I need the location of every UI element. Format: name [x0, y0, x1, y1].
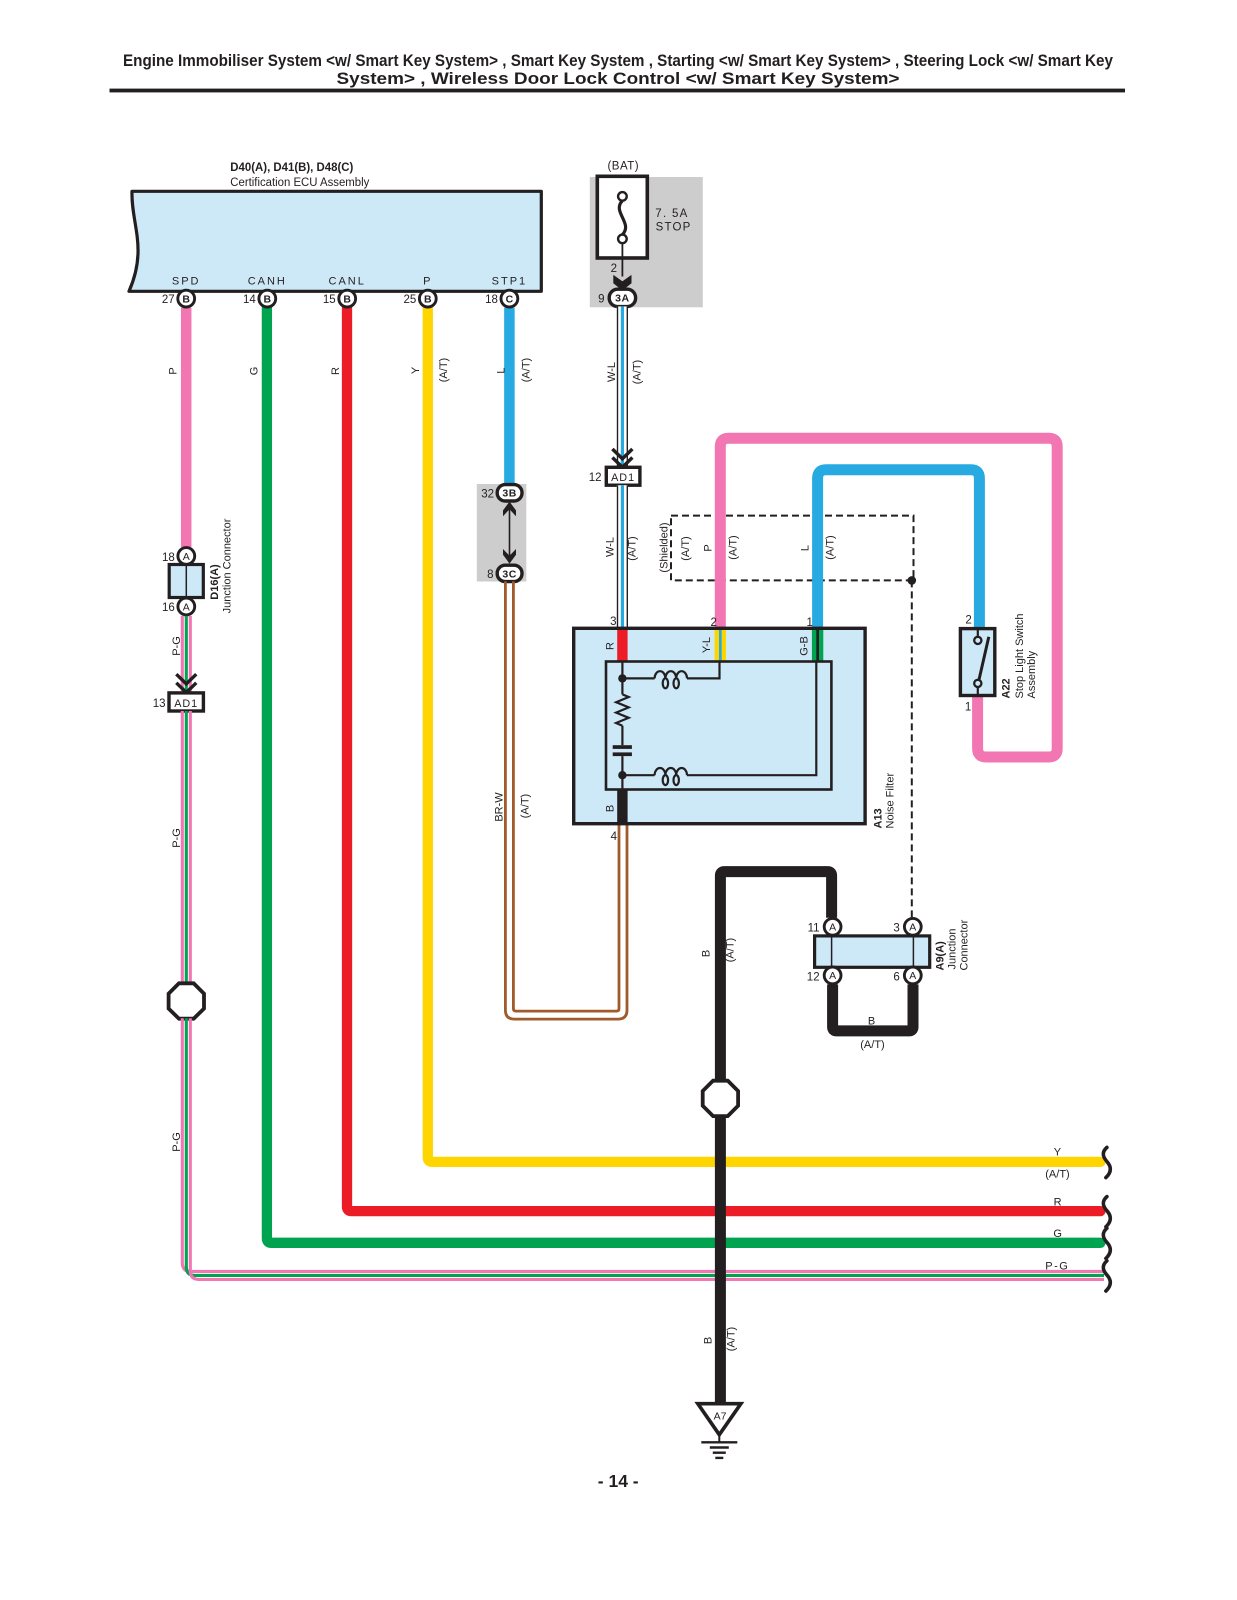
- svg-text:3C: 3C: [502, 568, 516, 580]
- svg-text:18: 18: [485, 294, 498, 306]
- connector 32 3B: [481, 485, 522, 501]
- noise filter pin 2 Y-L stub: [701, 617, 726, 662]
- svg-text:A: A: [183, 601, 190, 613]
- wire W-L (AD1 12 to noise filter pin 3): [617, 485, 628, 630]
- wire L (STP1 18 to connector 3B): [504, 308, 515, 486]
- svg-text:A: A: [909, 922, 916, 934]
- svg-text:Certification ECU Assembly: Certification ECU Assembly: [230, 177, 369, 189]
- svg-text:G: G: [249, 367, 261, 376]
- wire BR-W (3C down, right, up to noise filter pin 4): [505, 581, 627, 1019]
- svg-text:CANH: CANH: [248, 276, 287, 288]
- svg-text:System> , Wireless Door Lock C: System> , Wireless Door Lock Control <w/…: [337, 69, 900, 88]
- svg-text:A: A: [829, 970, 836, 982]
- svg-text:R: R: [1054, 1197, 1062, 1209]
- wire label P (A/T) in shield: [703, 535, 740, 559]
- label (Shielded) (A/T): [659, 522, 693, 572]
- svg-text:7. 5A: 7. 5A: [655, 208, 688, 220]
- brace G: [1103, 1228, 1110, 1258]
- svg-text:Y: Y: [1054, 1146, 1062, 1158]
- svg-text:L: L: [800, 545, 812, 551]
- wire B loop (A9 pin 12 to pin 6): [833, 984, 913, 1031]
- pin 15 B CANL: [323, 276, 366, 307]
- svg-text:15: 15: [323, 294, 336, 306]
- splice arrow into AD1 13: [176, 674, 196, 692]
- svg-text:3: 3: [893, 923, 899, 935]
- svg-text:D40(A), D41(B), D48(C): D40(A), D41(B), D48(C): [230, 162, 353, 174]
- node junction top: [618, 674, 626, 682]
- svg-text:9: 9: [598, 293, 604, 305]
- svg-text:1: 1: [806, 617, 812, 629]
- wire P-G (D16 pin16 to AD1 13): [182, 616, 190, 693]
- svg-text:B: B: [264, 293, 272, 305]
- svg-text:- 14 -: - 14 -: [598, 1471, 639, 1491]
- ground A7: [698, 1404, 741, 1443]
- svg-text:B: B: [424, 293, 432, 305]
- wire L stop light (noise filter pin 1 up, right, down to switch pin 2): [818, 470, 980, 630]
- connector AD1 12: [589, 467, 640, 485]
- svg-text:(A/T): (A/T): [680, 536, 692, 560]
- svg-text:3: 3: [610, 616, 616, 628]
- svg-text:A13: A13: [873, 808, 885, 828]
- svg-text:SPD: SPD: [172, 276, 201, 288]
- shield dashed box: [671, 516, 914, 581]
- svg-text:G: G: [1053, 1228, 1062, 1240]
- brace Y: [1103, 1147, 1110, 1177]
- svg-text:B: B: [703, 1337, 715, 1344]
- wire label W-L (A/T) lower: [605, 536, 639, 560]
- wire label Y (A/T): [410, 358, 450, 382]
- svg-text:W-L: W-L: [605, 537, 617, 557]
- wire inductor 1 to pin 2: [687, 662, 720, 679]
- wire label L (A/T) in shield: [800, 535, 837, 559]
- svg-text:B: B: [343, 293, 351, 305]
- svg-text:L: L: [496, 367, 508, 373]
- wire Y (P 25 down and right to edge): [428, 308, 1101, 1162]
- svg-text:A: A: [909, 970, 916, 982]
- wire P-G (octagon down, right to edge): [182, 1018, 1104, 1279]
- svg-text:14: 14: [243, 294, 256, 306]
- wire capacitor to bottom node and pin 4: [621, 756, 623, 789]
- noise filter pin 1 G-B stub: [799, 617, 824, 662]
- resistor: [616, 694, 629, 725]
- svg-text:AD1: AD1: [174, 698, 198, 710]
- svg-text:(A/T): (A/T): [825, 535, 837, 559]
- wire pin3 to top node: [621, 662, 623, 695]
- splice octagon on B wire: [703, 1081, 738, 1116]
- svg-text:G-B: G-B: [799, 636, 811, 656]
- node junction bottom: [618, 771, 626, 779]
- svg-text:A22: A22: [1001, 678, 1013, 698]
- svg-text:STP1: STP1: [492, 276, 528, 288]
- svg-text:P-G: P-G: [171, 1132, 183, 1152]
- svg-text:R: R: [605, 642, 617, 650]
- svg-text:Assembly: Assembly: [1026, 650, 1038, 698]
- svg-text:D16(A): D16(A): [209, 564, 221, 600]
- svg-text:P: P: [703, 544, 715, 551]
- noise filter A13 box: [574, 628, 865, 823]
- A13 label: [873, 773, 897, 829]
- svg-text:(Shielded): (Shielded): [659, 522, 671, 572]
- stop light switch A22 body: [960, 629, 994, 696]
- svg-text:12: 12: [807, 971, 820, 983]
- arrow up to 3B: [503, 502, 516, 517]
- svg-text:Y-L: Y-L: [701, 637, 713, 653]
- svg-text:A: A: [829, 922, 836, 934]
- A9 pin 12 A: [807, 967, 841, 984]
- svg-text:CANL: CANL: [329, 276, 366, 288]
- junction connector A9(A) body: [815, 936, 930, 967]
- svg-text:27: 27: [162, 294, 175, 306]
- wire label L (A/T): [496, 358, 533, 382]
- wire label BR-W (A/T): [494, 792, 532, 822]
- svg-text:AD1: AD1: [611, 472, 635, 484]
- wire P (SPD 27 to D16 pin 18): [181, 308, 192, 547]
- svg-text:STOP: STOP: [656, 221, 692, 233]
- svg-text:W-L: W-L: [606, 362, 618, 382]
- wire label B (A/T) loop: [860, 1016, 884, 1051]
- svg-text:A9(A): A9(A): [935, 941, 947, 971]
- svg-text:P: P: [168, 367, 180, 374]
- svg-text:Connector: Connector: [959, 919, 971, 970]
- label Y (A/T) right end: [1045, 1146, 1069, 1180]
- svg-text:3A: 3A: [615, 293, 629, 305]
- svg-text:25: 25: [404, 294, 417, 306]
- svg-text:4: 4: [611, 831, 618, 843]
- svg-text:B: B: [868, 1016, 875, 1028]
- svg-text:2: 2: [710, 617, 716, 629]
- fuse block gray background: [590, 177, 703, 307]
- A9 pin 6 A: [893, 967, 921, 984]
- svg-text:BR-W: BR-W: [494, 792, 506, 822]
- svg-text:2: 2: [965, 615, 971, 627]
- ECU label: [230, 162, 369, 189]
- svg-text:Junction Connector: Junction Connector: [222, 518, 234, 613]
- svg-text:Stop Light Switch: Stop Light Switch: [1014, 614, 1026, 699]
- svg-text:(A/T): (A/T): [632, 360, 644, 384]
- wire B (octagon to ground A7): [715, 1116, 726, 1405]
- connector AD1 13: [153, 693, 204, 711]
- junction connector D16(A) body: [169, 565, 203, 598]
- svg-text:Junction: Junction: [947, 929, 959, 970]
- fuse 7.5A STOP: [597, 176, 691, 258]
- connector 9 3A: [598, 289, 636, 306]
- svg-text:(A/T): (A/T): [728, 535, 740, 559]
- wire W-L (3A down to AD1 12): [617, 306, 628, 467]
- arrow down to 3C: [503, 549, 516, 564]
- ECU D40(A) D41(B) D48(C) box: [129, 191, 541, 291]
- svg-text:8: 8: [487, 569, 493, 581]
- svg-text:B: B: [605, 805, 617, 812]
- wire label W-L (A/T): [606, 360, 644, 384]
- svg-text:1: 1: [965, 701, 971, 713]
- wire inductor 2 to pin 1: [687, 662, 816, 776]
- svg-text:P-G: P-G: [1045, 1261, 1069, 1273]
- svg-text:P-G: P-G: [171, 828, 183, 848]
- wire R (CANL 15 down and right to edge): [347, 308, 1101, 1211]
- wire label B (A/T) lower: [703, 1327, 738, 1351]
- shield drain dashed wire: [911, 580, 913, 917]
- svg-text:(A/T): (A/T): [521, 358, 533, 382]
- inductor L1: [655, 671, 687, 688]
- svg-text:18: 18: [162, 552, 175, 564]
- splice arrow into AD1 12: [612, 449, 632, 467]
- svg-text:12: 12: [589, 472, 602, 484]
- fuse pin 2 wire and arrow: [611, 243, 632, 290]
- wire bottom node to inductor 2: [622, 774, 654, 776]
- brace R: [1103, 1197, 1110, 1227]
- noise filter pin 3 R stub: [605, 616, 628, 662]
- svg-text:P-G: P-G: [171, 636, 183, 656]
- brace P-G: [1103, 1261, 1110, 1291]
- junction connector D16(A) pin 16 A: [162, 598, 195, 615]
- svg-text:13: 13: [153, 698, 166, 710]
- svg-text:11: 11: [808, 923, 820, 935]
- A9(A) label: [935, 919, 971, 970]
- title: [123, 51, 1113, 88]
- svg-text:32: 32: [481, 488, 494, 500]
- svg-text:Engine Immobiliser System <w/: Engine Immobiliser System <w/ Smart Key …: [123, 51, 1113, 70]
- noise filter inner box: [606, 662, 831, 790]
- svg-text:P: P: [423, 276, 432, 288]
- svg-text:A: A: [183, 551, 190, 563]
- wire label B (A/T): [701, 938, 737, 962]
- shield drain junction dot: [908, 576, 917, 585]
- A9 pin 3 A: [893, 918, 921, 935]
- wire P stop light (noise filter pin 2 up, right, down, left to switch pin 1): [720, 438, 1057, 757]
- inductor L2: [655, 768, 687, 785]
- svg-text:(A/T): (A/T): [725, 938, 737, 962]
- svg-text:(A/T): (A/T): [726, 1327, 738, 1351]
- svg-text:(A/T): (A/T): [438, 358, 450, 382]
- svg-text:(A/T): (A/T): [860, 1039, 884, 1051]
- svg-text:(A/T): (A/T): [520, 794, 532, 818]
- wire top node to inductor 1: [622, 677, 654, 679]
- wire P-G (AD1 13 to splice octagon): [182, 711, 190, 984]
- wire resistor to capacitor: [621, 726, 623, 746]
- svg-text:(A/T): (A/T): [627, 536, 639, 560]
- junction connector D16(A) pin 18 A: [162, 548, 195, 565]
- pin 18 C STP1: [485, 276, 527, 307]
- svg-text:3B: 3B: [502, 488, 516, 500]
- capacitor: [613, 745, 632, 756]
- svg-text:16: 16: [162, 602, 175, 614]
- svg-text:A7: A7: [714, 1411, 727, 1423]
- connector 3B 3C gray background: [477, 484, 527, 582]
- A22 label: [1001, 614, 1039, 699]
- pin 25 B P: [404, 276, 437, 307]
- splice octagon on P-G wire: [169, 983, 204, 1018]
- noise filter pin 4 B stub: [605, 790, 628, 843]
- svg-text:R: R: [330, 367, 342, 375]
- pin 14 B CANH: [243, 276, 287, 307]
- wire between arrows: [509, 509, 511, 558]
- D16(A) label: [209, 518, 234, 613]
- wire G (CANH 14 down and right to edge): [267, 308, 1101, 1243]
- svg-text:(BAT): (BAT): [607, 161, 639, 173]
- svg-text:Noise Filter: Noise Filter: [885, 773, 897, 829]
- wire B (left corner to A9 pin 11): [720, 872, 831, 1081]
- svg-text:2: 2: [611, 263, 617, 275]
- earth symbol: [701, 1442, 737, 1458]
- svg-text:(A/T): (A/T): [1045, 1168, 1069, 1180]
- svg-text:B: B: [182, 293, 190, 305]
- svg-text:Y: Y: [410, 366, 422, 374]
- connector 8 3C: [487, 565, 522, 581]
- A9 pin 11 A: [808, 918, 841, 935]
- pin 27 B SPD: [162, 276, 201, 307]
- title rule: [110, 89, 1126, 93]
- svg-text:C: C: [506, 293, 514, 305]
- svg-text:B: B: [701, 950, 713, 957]
- svg-text:6: 6: [893, 971, 899, 983]
